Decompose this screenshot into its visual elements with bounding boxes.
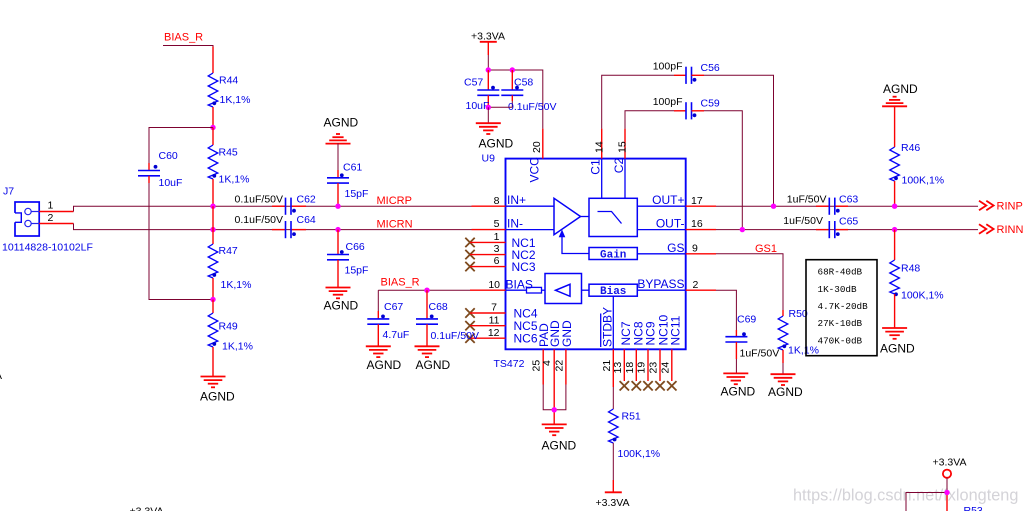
pin 24 NC11 — [659, 315, 682, 390]
svg-text:NC11: NC11 — [668, 315, 682, 345]
svg-text:3: 3 — [494, 243, 500, 255]
wire R51 to +3.3VA — [612, 443, 614, 492]
net label MICRP — [377, 195, 412, 207]
svg-text:C61: C61 — [343, 161, 362, 173]
capacitor C61 — [327, 161, 368, 200]
U9 inner Gain box — [589, 248, 637, 262]
capacitor C68 — [416, 290, 479, 346]
wire PAD/GND to ground — [543, 385, 566, 425]
U9 inner Bias box — [589, 284, 686, 298]
wire BIAS_R stub — [163, 46, 213, 49]
pin 15 C2 — [612, 129, 629, 174]
svg-text:1: 1 — [48, 200, 54, 212]
svg-text:GND: GND — [560, 320, 574, 347]
svg-text:AGND: AGND — [542, 438, 577, 452]
resistor R49 — [208, 313, 253, 353]
node +3.3VA junction — [944, 490, 949, 495]
capacitor C59 — [653, 96, 720, 120]
pin 25 PAD — [531, 323, 551, 385]
svg-text:AGND: AGND — [200, 390, 235, 404]
ground AGND under C68 — [415, 346, 451, 372]
wire R46 to RINP — [894, 181, 896, 206]
svg-text:+3.3VA: +3.3VA — [130, 505, 164, 511]
wire R45 top pin — [212, 128, 214, 146]
capacitor C65 — [783, 215, 858, 238]
svg-text:1: 1 — [494, 231, 500, 243]
ground AGND under R49 — [200, 377, 235, 404]
ground AGND under C69 — [721, 373, 756, 398]
wire +3.3VA to R53 — [906, 493, 947, 511]
svg-text:13: 13 — [612, 362, 624, 374]
svg-text:MICRN: MICRN — [377, 218, 413, 230]
U9 inner bias resistor block — [506, 287, 546, 293]
wire C57/C58 bottom — [488, 106, 512, 108]
svg-text:1K,1%: 1K,1% — [219, 174, 250, 186]
net label GS1 — [755, 243, 777, 255]
svg-text:J7: J7 — [3, 186, 14, 198]
capacitor C69 — [725, 314, 779, 360]
node C58 junction — [510, 67, 515, 72]
svg-text:IN+: IN+ — [507, 193, 526, 207]
power +3.3VA (bottom) — [596, 492, 630, 509]
wire R45 bottom pin — [212, 179, 214, 206]
watermark — [793, 487, 1018, 505]
svg-text:AGND: AGND — [324, 116, 359, 130]
svg-text:9: 9 — [692, 242, 698, 254]
svg-text:10uF: 10uF — [466, 100, 490, 112]
svg-text:10: 10 — [488, 279, 500, 291]
svg-text:C65: C65 — [839, 216, 858, 228]
wire BIAS_R — [378, 289, 470, 291]
power +3.3VA (bottom right) — [933, 456, 967, 492]
svg-text:R53: R53 — [964, 505, 983, 511]
svg-text:4.7uF: 4.7uF — [383, 329, 410, 341]
svg-text:AGND: AGND — [479, 136, 514, 150]
ground AGND under C57 — [476, 123, 514, 150]
wire C61 to MICRP — [337, 183, 339, 206]
pin 16 OUT- — [656, 217, 716, 231]
node +3.3VA/C57 junction — [486, 67, 491, 72]
svg-text:4.7K-20dB: 4.7K-20dB — [818, 301, 869, 312]
capacitor C63 — [787, 194, 859, 215]
wire BYPASS to C69 — [716, 290, 736, 337]
svg-text:R48: R48 — [901, 263, 920, 275]
svg-text:A: A — [0, 370, 2, 382]
pin 9 GS — [667, 241, 716, 255]
node R48/RINN junction — [892, 227, 897, 232]
svg-text:15pF: 15pF — [345, 188, 369, 200]
ground AGND under C66 — [324, 288, 359, 313]
U9 inner STDBY line — [612, 296, 614, 349]
ground AGND under R50 — [768, 374, 803, 399]
U9 inner gain feedback arrow — [559, 230, 589, 254]
wire C1 to C56 — [602, 75, 674, 128]
svg-text:C1: C1 — [589, 159, 603, 175]
svg-text:100pF: 100pF — [653, 60, 683, 72]
svg-text:14: 14 — [593, 141, 605, 153]
node R46/RINP junction — [892, 204, 897, 209]
svg-text:22: 22 — [553, 360, 565, 372]
U9 inner amplifier triangle — [554, 198, 581, 234]
svg-text:15pF: 15pF — [345, 264, 369, 276]
resistor R47 — [208, 244, 251, 291]
svg-text:0.1uF/50V: 0.1uF/50V — [431, 330, 479, 342]
pin 8 IN+ — [472, 193, 527, 207]
pin 1 of J7 — [39, 200, 73, 212]
U9 inner C1/C2 lines — [602, 159, 625, 199]
svg-text:4: 4 — [541, 360, 553, 366]
svg-text:11: 11 — [489, 314, 500, 326]
svg-text:C69: C69 — [737, 314, 756, 326]
sheet border reference A — [0, 370, 2, 382]
pin 7 NC4 — [465, 302, 538, 321]
svg-text:17: 17 — [691, 195, 703, 207]
svg-text:16: 16 — [691, 218, 703, 230]
svg-text:+3.3VA: +3.3VA — [933, 456, 967, 468]
svg-text:100K,1%: 100K,1% — [618, 448, 661, 460]
pin 4 GND — [541, 320, 562, 385]
svg-text:BIAS_R: BIAS_R — [164, 32, 203, 44]
svg-text:C57: C57 — [464, 76, 483, 88]
wire VCC supply — [488, 70, 543, 129]
svg-text:0.1uF/50V: 0.1uF/50V — [508, 101, 556, 113]
svg-text:AGND: AGND — [768, 385, 803, 399]
svg-text:AGND: AGND — [324, 299, 359, 313]
svg-text:100pF: 100pF — [653, 96, 683, 108]
node C59/RINN junction — [740, 227, 745, 232]
svg-text:AGND: AGND — [721, 385, 756, 399]
svg-text:24: 24 — [659, 362, 671, 374]
svg-text:5: 5 — [494, 218, 500, 230]
wire C56 to OUT+ — [704, 75, 774, 206]
pin 6 NC3 — [465, 255, 536, 274]
svg-text:1K,1%: 1K,1% — [221, 279, 252, 291]
svg-text:1uF/50V: 1uF/50V — [783, 215, 823, 227]
wire MICRN to C66 — [337, 230, 339, 255]
wire MICRP — [74, 206, 472, 211]
designator R53 — [964, 505, 983, 511]
svg-text:GS: GS — [667, 241, 684, 255]
U9 inner input lines — [506, 206, 555, 229]
connector J7 — [2, 186, 93, 254]
svg-text:C59: C59 — [701, 97, 720, 109]
wire R44 top pin — [212, 47, 214, 74]
power +3.3VA (bottom left, partial) — [130, 505, 164, 511]
svg-text:100K,1%: 100K,1% — [901, 289, 944, 301]
svg-text:0.1uF/50V: 0.1uF/50V — [235, 194, 283, 206]
svg-text:0.1uF/50V: 0.1uF/50V — [235, 214, 283, 226]
node R47/MICRN junction — [210, 227, 215, 232]
svg-text:6: 6 — [494, 255, 500, 267]
pin 23 NC10 — [648, 314, 671, 390]
wire C59 to OUT- — [704, 111, 742, 230]
svg-text:BYPASS: BYPASS — [637, 277, 684, 291]
resistor R48 — [890, 260, 944, 301]
svg-text:R45: R45 — [219, 147, 238, 159]
wire RINN — [716, 229, 978, 231]
pin 18 NC8 — [624, 321, 646, 390]
svg-text:1K,1%: 1K,1% — [220, 94, 251, 106]
pin 2 BYPASS — [637, 277, 716, 291]
wire AGND to R46 — [894, 106, 896, 147]
capacitor C62 — [235, 194, 316, 215]
svg-text:AGND: AGND — [416, 358, 451, 372]
wire C66 to ground — [337, 260, 339, 287]
svg-text:NC6: NC6 — [514, 332, 538, 346]
svg-text:C58: C58 — [514, 76, 533, 88]
pin 14 C1 — [589, 129, 606, 175]
svg-text:MICRP: MICRP — [377, 195, 412, 207]
wire RINP — [716, 205, 978, 207]
node R45/MICRP junction — [210, 204, 215, 209]
net label BIAS_R (right) — [381, 276, 420, 288]
wire RINN to R48 — [894, 230, 896, 260]
resistor R46 — [890, 142, 944, 186]
wire to AGND — [487, 107, 489, 123]
pin 1 NC1 — [465, 231, 536, 250]
svg-text:C63: C63 — [839, 194, 858, 206]
svg-text:68R-40dB: 68R-40dB — [818, 267, 863, 278]
svg-text:TS472: TS472 — [494, 358, 525, 370]
wire R50 to ground — [782, 350, 784, 374]
pin 19 NC9 — [636, 321, 658, 390]
svg-text:19: 19 — [636, 362, 648, 374]
svg-text:2: 2 — [48, 212, 54, 224]
wire STDBY to R51 — [612, 387, 614, 409]
port RINP — [979, 200, 1023, 212]
pin 17 OUT+ — [652, 193, 716, 207]
svg-text:C66: C66 — [346, 241, 365, 253]
svg-text:GS1: GS1 — [755, 243, 777, 255]
svg-text:VCC: VCC — [528, 157, 542, 183]
capacitor C57 — [464, 70, 499, 112]
net label BIAS_R (top) — [164, 32, 203, 44]
pin 3 NC2 — [465, 243, 536, 262]
svg-text:OUT+: OUT+ — [652, 193, 684, 207]
wire GS to R50 — [716, 254, 783, 316]
svg-text:20: 20 — [531, 141, 543, 153]
svg-text:18: 18 — [624, 362, 636, 374]
svg-text:1uF/50V: 1uF/50V — [740, 348, 780, 360]
node C57 ground junction — [486, 105, 491, 110]
svg-text:470K-0dB: 470K-0dB — [818, 335, 863, 346]
svg-text:10uF: 10uF — [159, 177, 183, 189]
svg-text:1K,1%: 1K,1% — [222, 341, 253, 353]
pin 12 NC6 — [465, 327, 538, 346]
svg-text:C62: C62 — [297, 194, 316, 206]
svg-text:NC3: NC3 — [512, 260, 536, 274]
node C61/MICRP junction — [335, 204, 340, 209]
node R44/R45/C60 junction — [210, 125, 215, 130]
svg-text:C60: C60 — [159, 150, 178, 162]
svg-text:1uF/50V: 1uF/50V — [787, 194, 827, 206]
capacitor C64 — [235, 214, 316, 238]
wire R49 to ground — [212, 347, 214, 376]
svg-text:7: 7 — [491, 302, 497, 314]
U9 inner output lines — [637, 206, 685, 229]
svg-text:U9: U9 — [482, 153, 496, 165]
svg-text:OUT-: OUT- — [656, 217, 685, 231]
pin 11 NC5 — [465, 314, 538, 333]
resistor R51 — [609, 409, 661, 460]
net label MICRN — [377, 218, 413, 230]
svg-text:27K-10dB: 27K-10dB — [818, 318, 863, 329]
svg-text:C56: C56 — [701, 62, 720, 74]
svg-text:RINP: RINP — [997, 200, 1023, 212]
pin 13 NC7 — [612, 321, 633, 390]
pin 22 GND — [553, 320, 573, 385]
pin 2 of J7 — [39, 212, 73, 224]
wire C2 to C59 — [625, 111, 674, 129]
svg-text:23: 23 — [648, 362, 660, 374]
wire R44 bottom pin — [212, 107, 214, 128]
U9 inner filter box — [581, 198, 638, 236]
wire R48 to ground — [894, 294, 896, 328]
svg-text:R44: R44 — [219, 75, 238, 87]
ground AGND above R46 — [882, 82, 918, 106]
op-amp U9 TS472 body — [494, 159, 686, 370]
node C56/RINP junction — [771, 204, 776, 209]
svg-text:15: 15 — [617, 141, 629, 153]
svg-text:C2: C2 — [612, 158, 626, 174]
svg-text:C68: C68 — [429, 301, 448, 313]
svg-text:C64: C64 — [297, 214, 316, 226]
wire C60 bottom branch — [149, 183, 213, 300]
svg-text:AGND: AGND — [880, 342, 915, 356]
wire C60 top branch — [149, 128, 213, 164]
svg-text:BIAS: BIAS — [506, 278, 533, 292]
capacitor C60 — [138, 150, 182, 189]
capacitor C58 — [501, 70, 556, 113]
node C66/MICRN junction — [335, 227, 340, 232]
svg-text:2: 2 — [693, 279, 699, 291]
wire R49 top pin — [212, 300, 214, 314]
pin 21 STDBY — [600, 307, 614, 387]
wire R47 bottom pin — [212, 278, 214, 300]
svg-text:Gain: Gain — [600, 249, 626, 261]
resistor R44 — [208, 73, 250, 107]
capacitor C67 — [367, 290, 409, 346]
svg-text:100K,1%: 100K,1% — [902, 175, 945, 187]
svg-text:IN-: IN- — [507, 217, 523, 231]
wire AGND to C61 — [337, 143, 339, 178]
node R47/R49/C60 junction — [210, 297, 215, 302]
svg-text:R51: R51 — [622, 410, 641, 422]
capacitor C56 — [653, 60, 720, 84]
ground AGND under U9 — [542, 424, 577, 452]
pin 5 IN- — [472, 217, 524, 231]
svg-text:R50: R50 — [789, 308, 808, 320]
svg-text:AGND: AGND — [883, 82, 918, 96]
pin 20 VCC — [528, 129, 544, 183]
svg-text:+3.3VA: +3.3VA — [471, 30, 505, 42]
svg-text:RINN: RINN — [997, 224, 1024, 236]
node C68/BIAS junction — [424, 288, 429, 293]
svg-text:+3.3VA: +3.3VA — [596, 497, 630, 509]
svg-text:10114828-10102LF: 10114828-10102LF — [2, 242, 93, 254]
svg-text:STDBY: STDBY — [600, 307, 614, 347]
svg-text:R46: R46 — [901, 142, 920, 154]
svg-text:1K-30dB: 1K-30dB — [818, 284, 857, 295]
wire C69 to ground — [735, 342, 737, 373]
svg-text:AGND: AGND — [367, 358, 402, 372]
wire MICRN — [74, 224, 472, 230]
wire R45-R47 vertical — [212, 206, 214, 244]
pin 10 BIAS — [470, 278, 533, 292]
gain table box — [806, 260, 877, 356]
power +3.3VA (top) — [471, 30, 505, 70]
resistor R50 — [778, 308, 819, 357]
U9 inner GS line — [637, 253, 685, 255]
designator U9 — [482, 153, 496, 165]
ground AGND under R48 — [880, 328, 915, 356]
svg-text:C67: C67 — [384, 301, 403, 313]
svg-text:BIAS_R: BIAS_R — [381, 276, 420, 288]
U9 inner bias amp box — [545, 274, 589, 304]
svg-text:8: 8 — [494, 195, 500, 207]
ground AGND above C61 — [324, 116, 359, 144]
svg-text:R47: R47 — [219, 245, 238, 257]
ground AGND under C67 — [366, 346, 402, 372]
node GND junction — [552, 407, 557, 412]
svg-text:R49: R49 — [219, 321, 238, 333]
port RINN — [979, 224, 1023, 236]
capacitor C66 — [327, 241, 368, 276]
resistor R45 — [208, 145, 249, 186]
svg-text:12: 12 — [488, 327, 500, 339]
